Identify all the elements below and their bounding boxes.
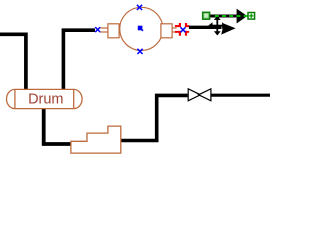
- unit U1 left port box: [108, 24, 119, 38]
- unit U1 right port box: [161, 24, 172, 38]
- unit U1 center anchor flag: [138, 26, 143, 31]
- selection handle left (green): [203, 12, 210, 19]
- selection handle right (green with plus): [248, 13, 255, 20]
- unit U1 right port prongs: [172, 28, 177, 32]
- wire W6 (pipe from valve right to canvas edge): [211, 94, 270, 97]
- red port marker (unconnected flange pair at right port): [175, 23, 189, 36]
- wire W3 dragged arrowhead: [221, 24, 235, 35]
- canvas background: [0, 0, 270, 158]
- svg-text:Drum: Drum: [28, 92, 63, 108]
- wire W1 (feed pipe from left edge into drum top): [0, 34, 26, 90]
- selected stream S1 arrowhead: [237, 9, 248, 24]
- wire W2 (pipe from drum top up to circle unit left port): [63, 30, 95, 90]
- valve V1 right triangle: [199, 89, 211, 101]
- selected stream S1 line: [210, 15, 237, 18]
- drum D1 (horizontal vessel): [7, 89, 83, 108]
- unit U1 left port prongs: [100, 28, 108, 32]
- valve V1 left triangle: [188, 89, 200, 101]
- selected stream S1 green selection dashes: [215, 15, 248, 17]
- staircase unit (steps symbol): [71, 126, 121, 153]
- move cursor (4-way arrows): [208, 16, 226, 36]
- unit U1 circle body: [120, 7, 163, 50]
- node X (right port connection): [181, 27, 186, 32]
- unit U1 top port X: [137, 5, 142, 10]
- unit U1 bottom port X: [137, 49, 142, 54]
- wire W4 (pipe from drum bottom to staircase unit): [44, 108, 71, 144]
- wire W5 (pipe from staircase unit right, up and right to valve): [121, 95, 188, 140]
- wire W3 (stream being dragged, from right port marker): [189, 26, 222, 29]
- node X (wire W2 to left port connection): [95, 27, 100, 32]
